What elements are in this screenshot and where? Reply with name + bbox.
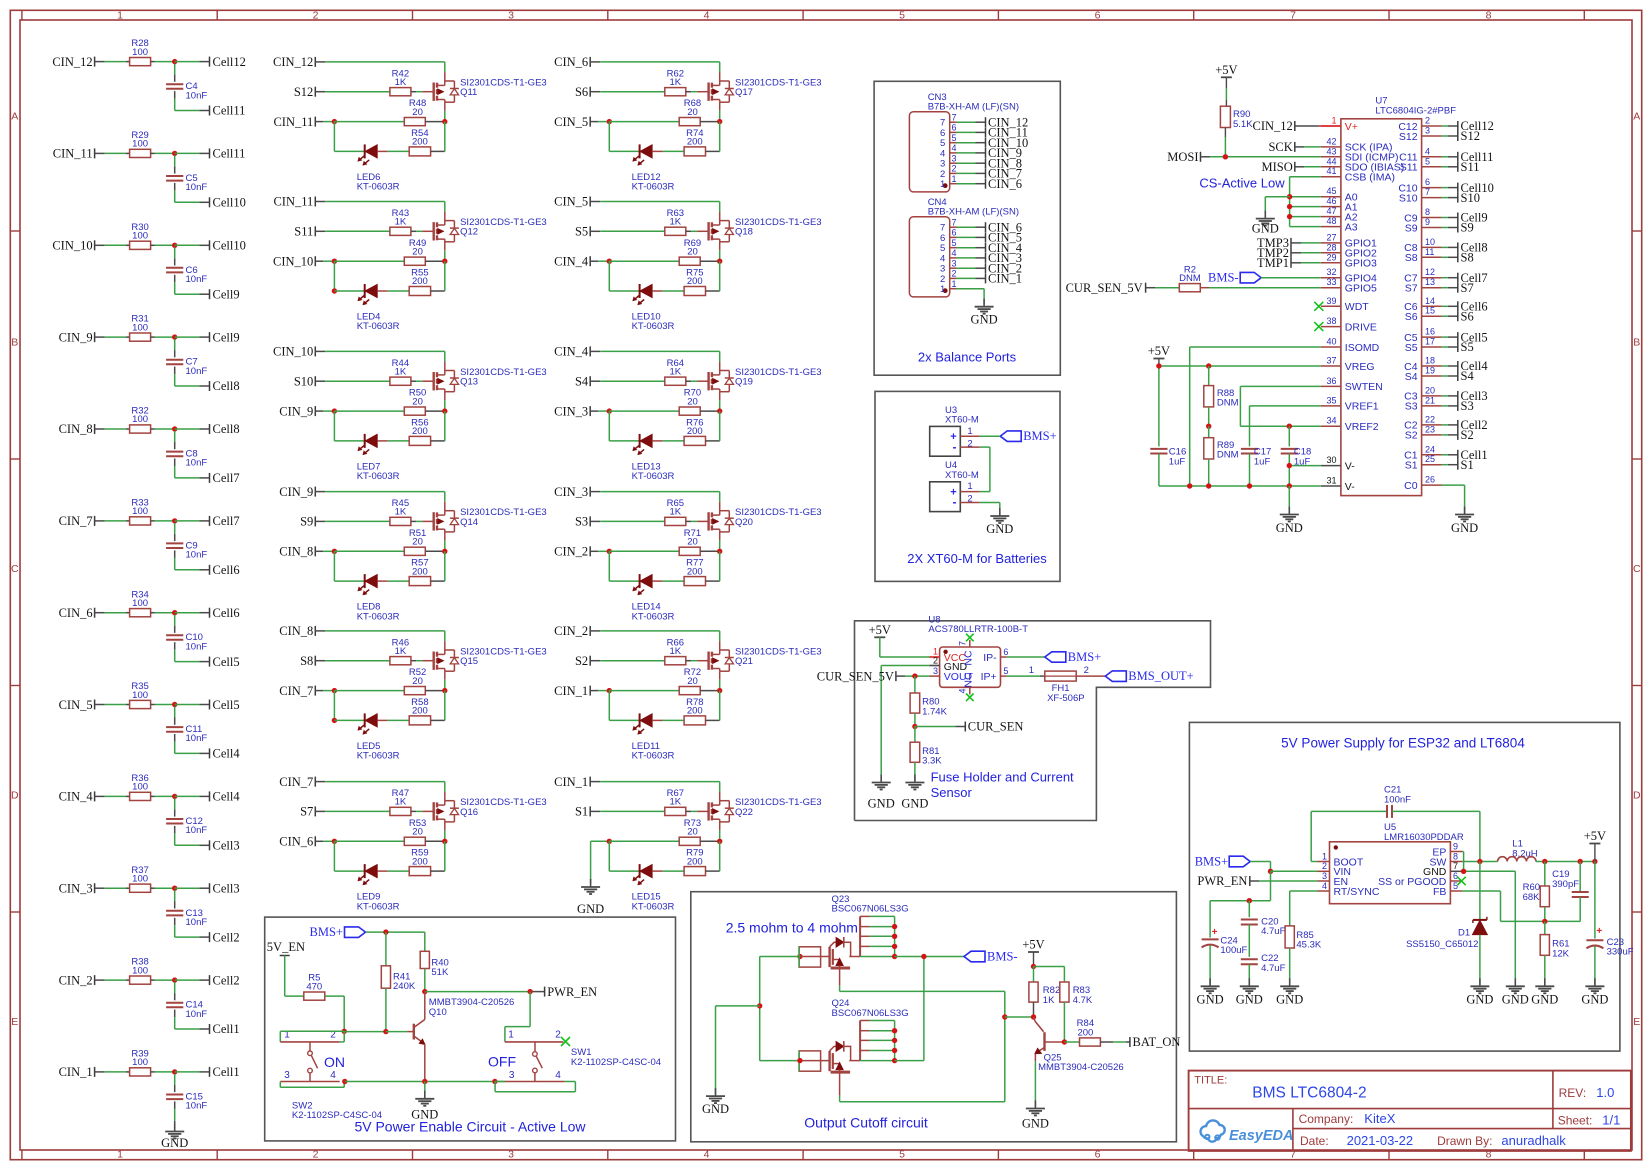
resistor R85 45.3K (1285, 926, 1322, 985)
svg-text:20: 20 (412, 537, 423, 548)
wire (706, 691, 720, 721)
ground (868, 775, 895, 811)
wire SWTEN (1240, 386, 1321, 426)
ground (161, 1124, 188, 1151)
LED LED4 KT-0603R (357, 284, 400, 332)
svg-text:1.74K: 1.74K (922, 706, 947, 717)
wire base to Q10 (386, 1031, 414, 1033)
node junction (442, 408, 447, 413)
wire (590, 520, 665, 522)
ground (1252, 211, 1279, 236)
svg-text:GND: GND (986, 522, 1013, 536)
svg-text:20: 20 (1425, 385, 1435, 395)
svg-text:Cell11: Cell11 (213, 104, 246, 118)
svg-text:Q19: Q19 (735, 377, 753, 388)
pin 2 C12 of U7 (1398, 116, 1441, 133)
wire (425, 121, 445, 123)
annotation box 2x Balance Ports (874, 81, 1060, 375)
svg-text:CIN_2: CIN_2 (59, 973, 93, 987)
node CIN_8 junction (172, 426, 177, 431)
svg-text:Q14: Q14 (460, 517, 478, 528)
net CIN_9 (986, 146, 1023, 160)
wire (957, 277, 986, 279)
wire base node (1005, 1016, 1034, 1018)
pin 10 C8 of U7 (1404, 237, 1441, 254)
net Cell6 (210, 563, 240, 577)
svg-text:KT-0603R: KT-0603R (357, 321, 400, 332)
svg-text:Cell2: Cell2 (213, 930, 240, 944)
svg-text:1K: 1K (669, 507, 681, 518)
svg-text:BMS_OUT+: BMS_OUT+ (1128, 669, 1193, 683)
svg-text:S1: S1 (1405, 460, 1418, 472)
wire (431, 411, 445, 441)
transistor Q21 SI2301CDS-T1-GE3 (709, 647, 822, 672)
wire (174, 523, 176, 541)
net S12 (1458, 129, 1480, 143)
wire (174, 339, 176, 357)
wire (686, 660, 709, 662)
net flag BMS+ enable (310, 925, 425, 939)
svg-text:XT60-M: XT60-M (945, 470, 979, 481)
switch SW2 K2-1102SP-C4SC-04 (280, 1029, 382, 1121)
net Cell9 (210, 330, 240, 344)
wire (590, 492, 720, 511)
svg-text:8: 8 (1453, 851, 1458, 861)
svg-text:10nF: 10nF (186, 641, 208, 652)
svg-text:GND: GND (411, 1108, 438, 1122)
svg-text:-: - (953, 495, 957, 509)
no-connect DRIVE (1314, 322, 1323, 331)
svg-text:Cell7: Cell7 (213, 514, 240, 528)
node junction base wire left (342, 1029, 347, 1034)
svg-text:GND: GND (1502, 992, 1529, 1006)
wire (95, 244, 130, 246)
node junction A0 (1287, 194, 1292, 199)
wire (686, 810, 709, 812)
svg-text:Cell5: Cell5 (213, 655, 240, 669)
svg-text:BMS LTC6804-2: BMS LTC6804-2 (1252, 1084, 1366, 1101)
svg-text:20: 20 (412, 827, 423, 838)
wire (609, 411, 639, 441)
node junction (607, 119, 612, 124)
svg-text:2.5 mohm to 4 mohm: 2.5 mohm to 4 mohm (726, 920, 858, 936)
svg-text:2: 2 (313, 9, 319, 21)
wire (1442, 434, 1458, 436)
wire CSB to address pins (1290, 177, 1321, 227)
svg-text:20: 20 (412, 107, 423, 118)
svg-text:S10: S10 (1461, 191, 1480, 205)
resistor R63 1K (665, 208, 686, 236)
svg-text:41: 41 (1326, 166, 1336, 176)
svg-text:CSB (IMA): CSB (IMA) (1345, 172, 1395, 184)
node junction R60 top (1542, 859, 1547, 864)
wire (590, 380, 665, 382)
wire (175, 642, 210, 661)
net flag BMS_OUT+ (1076, 665, 1194, 683)
svg-text:Cell4: Cell4 (213, 790, 241, 804)
wire (700, 690, 720, 692)
svg-text:14: 14 (1425, 296, 1435, 306)
resistor R52 20 (404, 667, 426, 695)
svg-text:S10: S10 (294, 374, 313, 388)
svg-text:D: D (1633, 789, 1641, 801)
transistor Q13 SI2301CDS-T1-GE3 (434, 367, 547, 392)
wire (652, 580, 684, 582)
svg-text:Cell1: Cell1 (213, 1065, 240, 1079)
node junction (607, 549, 612, 554)
svg-text:11: 11 (1425, 247, 1434, 257)
LED LED12 KT-0603R (632, 144, 675, 192)
pin 37 VREG of U7 (1321, 356, 1375, 373)
wire (315, 782, 445, 801)
svg-text:+: + (1596, 926, 1602, 937)
node junction Q10 emitter (422, 1079, 427, 1084)
svg-text:CIN_8: CIN_8 (279, 624, 313, 638)
net CIN_4 (554, 345, 590, 359)
svg-text:2x Balance Ports: 2x Balance Ports (918, 350, 1017, 365)
pin 42 SCK (IPA) of U7 (1321, 136, 1393, 153)
wire (175, 459, 210, 478)
wire (95, 520, 130, 522)
annotation box Fuse Holder and Current Sensor (855, 621, 1211, 821)
svg-text:1.0: 1.0 (1596, 1085, 1614, 1100)
wire (1442, 464, 1458, 466)
resistor R62 1K (665, 68, 686, 95)
node junction EP/GND (1461, 869, 1466, 874)
pin 29 GPIO3 of U7 (1321, 252, 1377, 269)
wire (175, 183, 210, 202)
svg-text:S4: S4 (1405, 371, 1418, 383)
wire (957, 152, 986, 154)
resistor R88 DNM (1204, 366, 1239, 426)
wire (315, 351, 445, 370)
wire (95, 61, 130, 63)
svg-text:100uF: 100uF (1220, 945, 1247, 956)
wire (957, 121, 986, 123)
transistor Q20 SI2301CDS-T1-GE3 (709, 507, 822, 532)
svg-text:CIN_3: CIN_3 (554, 485, 588, 499)
svg-text:D1: D1 (1458, 928, 1470, 939)
svg-text:S7: S7 (300, 805, 313, 819)
transistor Q12 SI2301CDS-T1-GE3 (434, 217, 547, 242)
svg-text:Fuse Holder and Current: Fuse Holder and Current (931, 769, 1074, 784)
ground (1581, 978, 1608, 1006)
net CUR_SEN_5V (1066, 281, 1179, 295)
wire (706, 122, 720, 152)
svg-text:DNM: DNM (1217, 450, 1239, 461)
wire (174, 615, 176, 633)
svg-text:SWTEN: SWTEN (1345, 381, 1383, 393)
IC U7 LTC6804IG-2#PBF (1341, 96, 1456, 496)
net CIN_5 (59, 698, 95, 712)
net CIN_6 (986, 220, 1023, 234)
svg-text:22: 22 (1425, 414, 1435, 424)
wire (590, 91, 665, 93)
wire (315, 380, 390, 382)
svg-text:20: 20 (687, 676, 698, 687)
wire (1442, 375, 1458, 377)
capacitor C23 330uF polarized (1586, 862, 1633, 985)
wire V- pin30 (1289, 465, 1321, 467)
svg-text:Output Cutoff circuit: Output Cutoff circuit (804, 1115, 928, 1131)
svg-text:100: 100 (132, 506, 148, 517)
net Cell9 (210, 287, 240, 301)
node junction (332, 549, 337, 554)
net CIN_2 (986, 261, 1023, 275)
wire GND pin7 (1462, 871, 1515, 985)
wire (609, 550, 679, 552)
pin 32 GPIO4 of U7 (1321, 267, 1377, 284)
resistor R73 20 (679, 818, 701, 846)
svg-text:7: 7 (952, 112, 957, 122)
wire (315, 690, 334, 692)
node junction A2 (1287, 214, 1292, 219)
pin 21 S3 of U7 (1405, 395, 1442, 412)
net S3 (575, 515, 590, 529)
wire (425, 550, 445, 552)
svg-text:46: 46 (1326, 196, 1336, 206)
svg-text:CIN_12: CIN_12 (1253, 119, 1293, 133)
wire (1442, 305, 1458, 307)
svg-text:1: 1 (508, 1029, 514, 1040)
wire (151, 520, 175, 522)
wire (151, 428, 175, 430)
wire (700, 410, 720, 412)
svg-text:KT-0603R: KT-0603R (632, 611, 675, 622)
svg-text:100: 100 (132, 1057, 148, 1068)
wire (315, 492, 445, 511)
svg-text:1K: 1K (669, 366, 681, 377)
pin 12 C7 of U7 (1404, 267, 1441, 284)
wire (315, 520, 390, 522)
svg-text:2: 2 (1322, 861, 1327, 871)
svg-text:GND: GND (1276, 992, 1303, 1006)
svg-text:B: B (11, 336, 18, 348)
annotation box 5V Power Enable Circuit (265, 917, 676, 1141)
svg-text:S7: S7 (1405, 283, 1418, 295)
svg-text:S1: S1 (575, 805, 588, 819)
net S12 (294, 85, 315, 99)
annotation 2.5 mohm to 4 mohm (726, 920, 858, 936)
svg-text:Cell10: Cell10 (213, 239, 246, 253)
wire (174, 1074, 176, 1092)
resistor R29 100 (130, 130, 151, 158)
node CIN_4 junction (172, 794, 177, 799)
transistor Q14 SI2301CDS-T1-GE3 (434, 507, 547, 532)
transistor Q17 SI2301CDS-T1-GE3 (709, 78, 822, 103)
net CIN_6 (59, 606, 95, 620)
node junction rail ISOMD (1187, 483, 1192, 488)
node junction rail R89 (1206, 483, 1211, 488)
node junction +5V split (1031, 964, 1036, 969)
wire (706, 261, 720, 291)
resistor R57 200 (409, 558, 430, 586)
wire (151, 1071, 175, 1073)
svg-text:CIN_12: CIN_12 (52, 55, 92, 69)
node junction (332, 688, 337, 693)
svg-text:3: 3 (508, 9, 514, 21)
wire (609, 261, 639, 291)
svg-text:28: 28 (1326, 242, 1336, 252)
svg-text:68K: 68K (1523, 892, 1541, 903)
svg-text:Cell5: Cell5 (213, 698, 240, 712)
wire (411, 520, 434, 522)
node CIN_10 junction (172, 243, 177, 248)
wire (590, 660, 665, 662)
ground (971, 299, 998, 327)
svg-text:CIN_10: CIN_10 (273, 254, 313, 268)
wire (377, 580, 409, 582)
svg-text:VREG: VREG (1345, 361, 1375, 373)
svg-text:EasyEDA: EasyEDA (1229, 1128, 1293, 1144)
resistor R54 200 (409, 128, 430, 156)
svg-text:CUR_SEN: CUR_SEN (968, 720, 1024, 734)
net Cell11 (210, 104, 246, 118)
svg-text:15: 15 (1425, 306, 1435, 316)
svg-text:GND: GND (161, 1136, 188, 1150)
net TMP1 (1257, 256, 1321, 270)
svg-text:DRIVE: DRIVE (1345, 321, 1377, 333)
svg-text:4.7uF: 4.7uF (1261, 926, 1285, 937)
svg-text:MMBT3904-C20526: MMBT3904-C20526 (1038, 1062, 1124, 1073)
svg-text:2: 2 (1425, 116, 1430, 126)
svg-text:Q15: Q15 (460, 656, 478, 667)
node junction FB/R60/R61 (1542, 919, 1547, 924)
node junction SW/C21/D1 (1477, 859, 1482, 864)
svg-text:ACS780LLRTR-100B-T: ACS780LLRTR-100B-T (928, 624, 1028, 635)
pin 4 C11 of U7 (1399, 146, 1441, 163)
svg-text:BMS-: BMS- (987, 950, 1018, 964)
svg-text:5: 5 (1453, 881, 1458, 891)
svg-text:S5: S5 (1405, 342, 1418, 354)
net Cell10 (210, 196, 246, 210)
title block (1189, 1071, 1631, 1151)
ground (1197, 978, 1224, 1006)
svg-text:36: 36 (1326, 376, 1336, 386)
svg-text:1: 1 (117, 9, 123, 21)
svg-text:RT/SYNC: RT/SYNC (1334, 886, 1380, 898)
resistor R89 DNM (1204, 426, 1239, 486)
pin 16 C5 of U7 (1404, 327, 1441, 344)
svg-text:17: 17 (1425, 337, 1435, 347)
svg-text:37: 37 (1326, 356, 1336, 366)
svg-text:D: D (11, 789, 19, 801)
svg-text:10nF: 10nF (186, 917, 208, 928)
svg-text:CIN_3: CIN_3 (59, 882, 93, 896)
wire (334, 550, 404, 552)
svg-text:GND: GND (1022, 1117, 1049, 1131)
svg-text:CIN_7: CIN_7 (59, 514, 93, 528)
net Cell7 (210, 471, 240, 485)
wire (590, 690, 609, 692)
wire BMS- node (895, 957, 964, 1061)
node junction SW2 pin4 (342, 1079, 347, 1084)
node CIN_7 junction (172, 518, 177, 523)
svg-text:K2-1102SP-C4SC-04: K2-1102SP-C4SC-04 (292, 1110, 382, 1121)
net S1 (1458, 458, 1474, 472)
wire (175, 336, 210, 338)
net MOSI (1167, 150, 1321, 164)
wire (425, 690, 445, 692)
net S1 (575, 805, 590, 819)
wire (175, 367, 210, 386)
svg-text:48: 48 (1326, 216, 1336, 226)
net Cell7 (1458, 271, 1488, 285)
annotation box Output Cutoff circuit (691, 892, 1177, 1142)
svg-text:4.7K: 4.7K (1073, 995, 1093, 1006)
svg-text:BSC067N06LS3G: BSC067N06LS3G (832, 1008, 909, 1019)
pin 23 S2 of U7 (1405, 424, 1442, 441)
net Cell10 (210, 239, 246, 253)
wire +5V to R83 (1034, 967, 1065, 982)
wire (719, 671, 721, 690)
svg-text:Date:: Date: (1300, 1134, 1329, 1148)
svg-text:8: 8 (1486, 9, 1492, 21)
capacitor C9 10nF (166, 540, 207, 560)
svg-text:BMS-: BMS- (1208, 271, 1239, 285)
net MISO (1262, 160, 1321, 174)
svg-text:3: 3 (952, 153, 957, 163)
pin 9 EP of U5 (1432, 841, 1462, 858)
wire (174, 247, 176, 265)
wire (590, 351, 720, 370)
svg-text:1: 1 (1029, 665, 1034, 676)
svg-text:4: 4 (952, 143, 957, 153)
svg-text:3: 3 (952, 258, 957, 268)
node junction (717, 839, 722, 844)
svg-text:31: 31 (1326, 476, 1336, 486)
svg-text:1K: 1K (395, 646, 407, 657)
pin 38 DRIVE of U7 (1321, 316, 1377, 333)
node junction gate rail (757, 1003, 762, 1008)
wire (1442, 227, 1458, 229)
svg-text:4: 4 (1425, 146, 1430, 156)
wire (334, 551, 364, 581)
svg-text:CIN_5: CIN_5 (554, 195, 588, 209)
connector U4 XT60-M (930, 460, 979, 511)
net S8 (1458, 251, 1474, 265)
pin 4 NC of U8 (957, 687, 970, 694)
svg-text:1K: 1K (395, 77, 407, 88)
wire (315, 230, 390, 232)
svg-text:CIN_6: CIN_6 (59, 606, 93, 620)
wire (700, 840, 720, 842)
resistor R76 200 (684, 418, 705, 446)
net S7 (300, 805, 315, 819)
pin 11 S8 of U7 (1405, 247, 1442, 264)
wire (1442, 346, 1458, 348)
net S11 (294, 225, 315, 239)
wire (957, 172, 986, 174)
resistor R5 470 (304, 973, 325, 1001)
svg-text:CIN_1: CIN_1 (59, 1065, 93, 1079)
svg-text:Q20: Q20 (735, 517, 753, 528)
resistor R81 3.3K (910, 727, 942, 782)
wire (609, 121, 679, 123)
node junction (607, 259, 612, 264)
resistor R68 20 (679, 98, 701, 126)
wire (175, 1071, 210, 1073)
svg-text:CIN_4: CIN_4 (59, 790, 94, 804)
svg-text:S7: S7 (1461, 281, 1474, 295)
wire FB (1462, 891, 1580, 921)
resistor R45 1K (390, 498, 411, 526)
svg-text:34: 34 (1326, 416, 1336, 426)
pin 26 C0 of U7 (1404, 475, 1441, 492)
capacitor C8 10nF (166, 449, 207, 469)
net Cell11 (1458, 150, 1494, 164)
svg-text:200: 200 (412, 137, 428, 148)
